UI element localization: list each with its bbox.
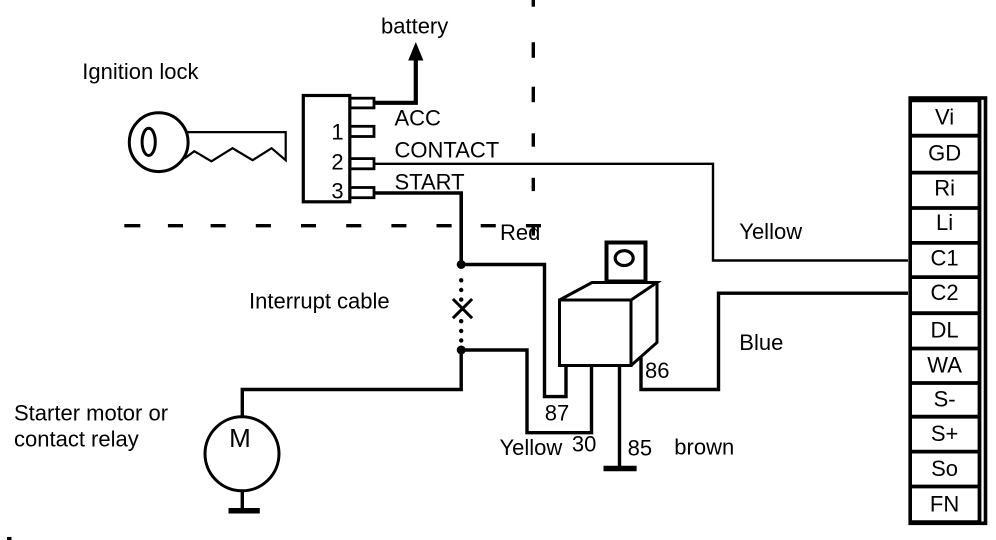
svg-text:CONTACT: CONTACT bbox=[395, 138, 500, 163]
svg-text:START: START bbox=[395, 170, 465, 195]
svg-text:C2: C2 bbox=[931, 280, 959, 305]
svg-text:1: 1 bbox=[331, 120, 343, 145]
svg-text:87: 87 bbox=[545, 401, 569, 426]
svg-text:Ri: Ri bbox=[934, 176, 955, 201]
svg-text:Yellow: Yellow bbox=[739, 219, 802, 244]
svg-text:brown: brown bbox=[674, 435, 734, 460]
svg-text:DL: DL bbox=[931, 318, 959, 343]
svg-text:Vi: Vi bbox=[935, 105, 954, 130]
svg-text:C1: C1 bbox=[931, 246, 959, 271]
svg-text:Interrupt cable: Interrupt cable bbox=[249, 289, 390, 314]
svg-text:Red: Red bbox=[500, 220, 540, 245]
svg-text:FN: FN bbox=[930, 492, 959, 517]
svg-text:ACC: ACC bbox=[395, 106, 442, 131]
svg-text:GD: GD bbox=[928, 140, 961, 165]
svg-text:S+: S+ bbox=[931, 421, 959, 446]
svg-text:Starter motor or: Starter motor or bbox=[14, 400, 168, 425]
svg-text:S-: S- bbox=[934, 387, 956, 412]
svg-text:Blue: Blue bbox=[739, 330, 783, 355]
svg-text:Yellow: Yellow bbox=[500, 435, 563, 460]
svg-text:Ignition lock: Ignition lock bbox=[82, 59, 199, 84]
svg-text:2: 2 bbox=[331, 150, 343, 175]
svg-text:3: 3 bbox=[331, 179, 343, 204]
svg-text:M: M bbox=[229, 423, 251, 453]
svg-text:Li: Li bbox=[936, 210, 953, 235]
svg-text:86: 86 bbox=[645, 358, 669, 383]
svg-text:30: 30 bbox=[572, 432, 596, 457]
svg-text:So: So bbox=[931, 456, 958, 481]
svg-text:WA: WA bbox=[927, 353, 962, 378]
svg-text:85: 85 bbox=[628, 435, 652, 460]
svg-text:contact relay: contact relay bbox=[14, 427, 139, 452]
svg-text:battery: battery bbox=[381, 14, 448, 39]
